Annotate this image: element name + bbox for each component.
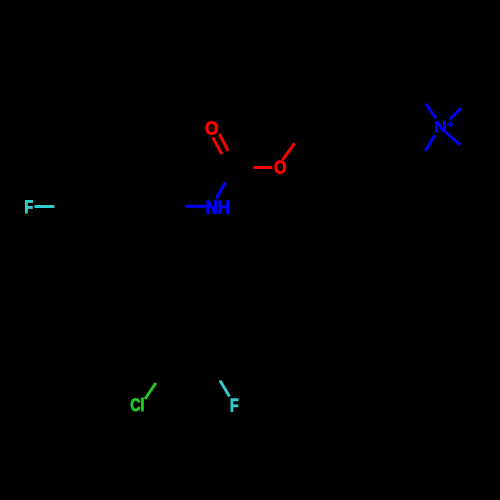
quaternary N+ label: [435, 121, 445, 132]
N+ methyl bond up-left blue half: [426, 104, 436, 119]
plus sign of N+: [447, 123, 453, 125]
N-C(carbonyl) bond blue half: [216, 183, 225, 200]
ester O label: [275, 161, 286, 174]
C-O ester bond red half: [253, 166, 272, 169]
O-CH2 bond red half: [283, 143, 295, 160]
F-C bond teal half (bottom): [220, 381, 230, 397]
Cl-C bond green half: [145, 383, 156, 399]
fluorine F label (bottom): [231, 399, 238, 412]
N-C(aryl) bond blue half: [186, 205, 207, 208]
NH label: [207, 201, 229, 214]
C=O double bond red half (line 1): [213, 137, 222, 154]
fluorine F label (left): [25, 200, 32, 213]
chlorine Cl label: [131, 398, 144, 411]
N+ methyl bond down-right blue half: [446, 132, 461, 145]
carbonyl O label: [206, 121, 218, 134]
C=O double bond red half (line 2): [219, 134, 228, 151]
F-C bond teal half (left): [35, 205, 55, 208]
N+ methyl bond down-left blue half: [425, 135, 435, 151]
N+ methyl bond up-right blue half: [450, 108, 461, 119]
